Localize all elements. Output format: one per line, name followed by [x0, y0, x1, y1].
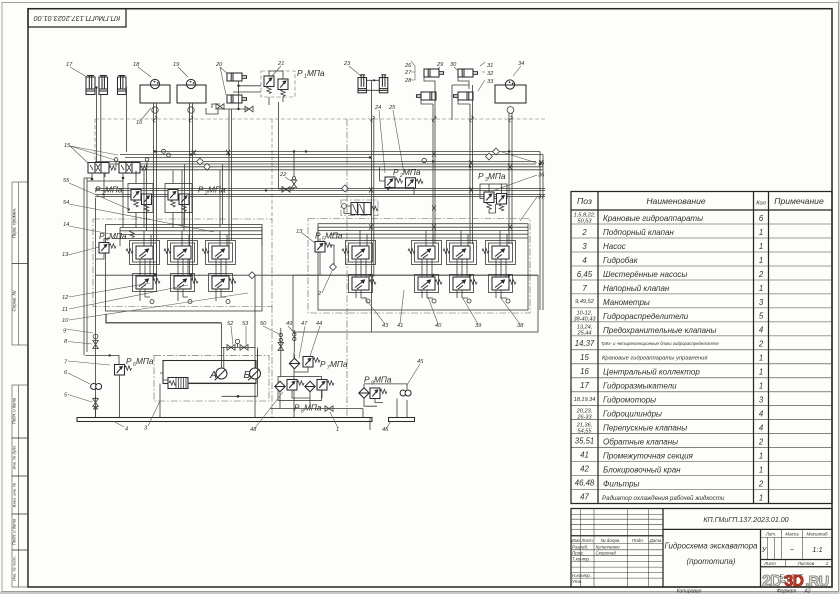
svg-text:Крановые гидроаппараты управле: Крановые гидроаппараты управления	[602, 356, 707, 362]
leaders 29 30	[432, 67, 462, 74]
bus y169	[120, 169, 543, 171]
wire frames around valve columns	[130, 241, 160, 265]
dots under 15	[91, 177, 125, 181]
spring 46r	[380, 389, 387, 393]
svg-text:11: 11	[62, 307, 68, 313]
svg-text:Гидрораспределители: Гидрораспределители	[603, 312, 689, 321]
svg-text:3: 3	[582, 242, 587, 251]
svg-text:Шестерённые насосы: Шестерённые насосы	[603, 270, 687, 279]
svg-text:26-33: 26-33	[576, 414, 592, 420]
valve 22	[291, 180, 297, 188]
leaders 50 49 47 44	[263, 326, 320, 358]
right group inner box	[318, 224, 528, 310]
valve 53	[240, 345, 248, 351]
svg-text:2: 2	[758, 270, 764, 279]
svg-text:30: 30	[450, 62, 457, 68]
svg-text:4: 4	[759, 326, 764, 335]
svg-text:50,53: 50,53	[578, 219, 593, 225]
x-connectors on vertical pairs	[192, 150, 196, 155]
leaders 12 11 10	[69, 283, 248, 320]
svg-text:МПа: МПа	[304, 403, 322, 413]
filter 47	[289, 358, 299, 368]
drain collector left group	[106, 314, 221, 323]
svg-text:Кулинченко: Кулинченко	[596, 545, 621, 550]
valve 20a	[216, 104, 224, 110]
title block outer	[571, 509, 832, 588]
svg-text:МПа: МПа	[105, 185, 123, 195]
svg-text:Р: Р	[393, 167, 399, 177]
svg-text:МПа: МПа	[109, 231, 127, 241]
spring R2l	[435, 280, 442, 284]
svg-text:36: 36	[538, 173, 545, 179]
stems R2	[422, 259, 433, 298]
svg-text:Инв. № дубл.: Инв. № дубл.	[11, 445, 16, 470]
cylinder 20 lower	[227, 95, 247, 103]
P8 cluster frame	[278, 377, 322, 401]
svg-text:4: 4	[759, 424, 764, 433]
valve column R1 lower	[352, 277, 369, 290]
pin 15a	[115, 162, 117, 168]
box Inv no podl	[12, 550, 28, 587]
leaders 43 41 40 39 38	[364, 290, 520, 324]
wires 42	[344, 206, 352, 214]
svg-text:Р: Р	[95, 185, 101, 195]
wires 24 25	[380, 167, 414, 195]
svg-text:50: 50	[260, 321, 267, 327]
wires 34 down	[509, 113, 512, 244]
filter 48c	[305, 381, 315, 391]
leader 17	[70, 67, 87, 77]
leader 16	[141, 108, 151, 120]
svg-text:53: 53	[242, 321, 249, 327]
collector box	[293, 275, 538, 332]
leaders 15	[70, 146, 118, 163]
valve 42	[351, 203, 371, 215]
wires from 15 down	[92, 173, 136, 228]
spring R3u	[443, 249, 450, 253]
check node 2	[330, 264, 337, 271]
svg-text:2: 2	[758, 479, 764, 488]
valve 36a	[484, 192, 494, 203]
check valve 35a	[486, 153, 493, 160]
svg-text:18: 18	[133, 62, 140, 68]
svg-text:Поз: Поз	[577, 196, 592, 206]
spring 44	[313, 358, 320, 362]
leader 48	[255, 392, 283, 428]
leader 7	[68, 361, 110, 365]
table body: names	[603, 214, 716, 489]
svg-text:14: 14	[63, 222, 69, 228]
svg-text:25: 25	[388, 105, 396, 111]
watermark 2D-3D.RU	[762, 573, 829, 590]
group 14 dashdot box	[93, 219, 272, 307]
svg-text:43: 43	[382, 323, 389, 329]
svg-text:54: 54	[63, 200, 69, 206]
wires from 17 down	[97, 87, 127, 172]
svg-text:1: 1	[759, 466, 763, 475]
svg-text:3D: 3D	[785, 573, 804, 590]
spring 21a	[267, 87, 271, 94]
node circle bus	[422, 158, 426, 162]
control valve 15b	[119, 163, 140, 174]
valve column L1 lower	[136, 276, 153, 289]
pilot dashed line	[95, 119, 545, 161]
spring 55a	[134, 200, 138, 207]
svg-text:Р: Р	[478, 171, 484, 181]
item 49 chain	[293, 330, 295, 418]
svg-text:Р: Р	[320, 359, 326, 369]
pilot bus lines left group	[112, 228, 262, 239]
dot 17	[95, 86, 97, 88]
left margin column boxes	[11, 182, 28, 587]
block 54 box	[165, 184, 192, 213]
box Sprav no	[12, 264, 28, 346]
leader 21	[272, 66, 281, 76]
left side drop wires	[84, 178, 123, 355]
pipe dots 20	[237, 85, 239, 111]
pipes 20	[218, 81, 261, 246]
svg-text:Насос: Насос	[603, 242, 626, 251]
block 55 box	[128, 184, 153, 213]
gauge A	[215, 368, 227, 380]
svg-text:46: 46	[382, 427, 389, 433]
svg-text:Р: Р	[364, 375, 370, 385]
spring 13L top	[130, 231, 134, 238]
relief 44	[303, 357, 313, 368]
drain circle L2	[188, 300, 192, 304]
pipes 29	[421, 77, 435, 120]
pilot bus stubs right	[318, 227, 507, 246]
yoke 23	[367, 80, 380, 90]
wires 29 down	[433, 120, 435, 244]
svg-text:52: 52	[227, 321, 234, 327]
svg-text:Б: Б	[244, 370, 251, 381]
svg-text:Кол: Кол	[756, 201, 766, 207]
svg-text:4: 4	[759, 410, 764, 419]
svg-text:Фильтры: Фильтры	[603, 480, 640, 489]
spring 15b	[140, 166, 147, 170]
hydromotor 19	[186, 79, 195, 88]
table body: qty	[758, 214, 764, 502]
designation cell	[663, 528, 832, 530]
svg-text:7: 7	[582, 284, 587, 293]
svg-text:Гидроразмыкатели: Гидроразмыкатели	[603, 382, 677, 391]
spring 36b	[499, 204, 503, 211]
relief 48b	[287, 380, 297, 391]
dot below	[237, 395, 240, 398]
yoke dot 23	[373, 79, 375, 81]
leader 20	[220, 67, 229, 95]
valve 55b	[142, 194, 152, 205]
stems L1	[140, 259, 150, 301]
svg-text:6: 6	[759, 214, 764, 223]
relief 48d	[317, 380, 327, 391]
valve column L1 upper	[136, 246, 153, 259]
svg-text:16: 16	[580, 367, 589, 376]
box Perv primen	[12, 182, 28, 264]
spring 25	[416, 179, 423, 183]
svg-text:Лит.: Лит.	[765, 531, 777, 536]
svg-text:1: 1	[826, 561, 829, 567]
valve 21a	[264, 76, 274, 87]
gauge B	[248, 368, 260, 380]
svg-text:Перепускные клапаны: Перепускные клапаны	[603, 424, 687, 433]
bus y188	[95, 187, 545, 189]
svg-text:Радиатор охлаждения рабочей жи: Радиатор охлаждения рабочей жидкости	[602, 495, 725, 502]
wires pumps 18 19 down	[154, 103, 193, 280]
spring 24	[396, 178, 403, 182]
wires 23 down	[372, 119, 374, 332]
block 36 box	[480, 184, 507, 199]
svg-text:МПа: МПа	[208, 185, 226, 195]
dot 24	[388, 186, 390, 188]
spring 55b	[144, 205, 148, 212]
dot 7	[109, 354, 111, 356]
motor 18 housing	[140, 85, 170, 103]
svg-text:Скоронад: Скоронад	[596, 550, 617, 555]
svg-text:1: 1	[759, 452, 763, 461]
spring R4l	[509, 280, 516, 284]
drain circle R3	[467, 299, 471, 303]
TITLE BLOCK	[571, 509, 832, 594]
svg-text:Блокировочный кран: Блокировочный кран	[603, 466, 681, 475]
svg-text:49: 49	[286, 321, 293, 327]
item 8 gauge circle	[93, 334, 98, 339]
wires 31 down	[470, 120, 473, 244]
drain valve 21	[282, 187, 290, 193]
spring 48b	[297, 381, 304, 385]
column feed wires from buses	[144, 165, 223, 228]
rail node	[249, 272, 256, 279]
leader 13 left	[68, 247, 99, 255]
circle 22	[292, 177, 295, 180]
valve column R1 upper	[352, 246, 369, 259]
spring L1l	[153, 279, 160, 283]
leader 23	[349, 66, 361, 76]
wires 21	[269, 71, 294, 189]
valve 21b	[278, 79, 288, 90]
relief valve 25	[406, 178, 416, 189]
brake cylinders 17	[86, 75, 126, 94]
stem circle 19	[188, 107, 194, 113]
relief valve 13 right	[315, 242, 325, 253]
motor 34 housing	[495, 85, 526, 103]
gauge circle 42	[342, 204, 347, 209]
svg-text:3: 3	[759, 396, 764, 405]
leader 14	[69, 226, 110, 234]
box Podp i data 2	[12, 514, 28, 550]
relief valve 13 left	[99, 243, 109, 254]
svg-text:МПа: МПа	[325, 231, 343, 241]
svg-text:17: 17	[66, 62, 73, 68]
svg-text:Изм: Изм	[571, 538, 579, 543]
svg-text:Справ. №: Справ. №	[11, 291, 16, 312]
svg-text:Обратные клапаны: Обратные клапаны	[603, 438, 678, 447]
cylinder 23 right	[379, 75, 388, 93]
bus y151	[154, 151, 541, 153]
svg-text:Центральный коллектор: Центральный коллектор	[603, 368, 700, 377]
zig spring 3	[169, 381, 176, 385]
block 42 dashed box	[341, 200, 378, 216]
cylinder 31 upper	[458, 69, 478, 77]
wires 7	[85, 355, 119, 417]
stem 52/53	[237, 344, 239, 348]
svg-text:2: 2	[581, 228, 587, 237]
right edge wires	[540, 152, 543, 311]
leaders 24 25	[379, 110, 404, 173]
dashed edge of group box up	[271, 119, 273, 219]
svg-text:№ докум.: № докум.	[601, 538, 621, 543]
gear pump 6	[91, 384, 102, 390]
stems L3	[216, 259, 226, 301]
spring 48d	[327, 381, 334, 385]
svg-text:Лист: Лист	[580, 538, 593, 543]
svg-text:23: 23	[343, 61, 351, 67]
valve 36b	[497, 194, 507, 205]
svg-text:14,37: 14,37	[575, 339, 595, 348]
svg-text:28: 28	[404, 78, 412, 84]
tank bar right	[389, 418, 415, 422]
dashdot box A/B	[154, 355, 269, 401]
stems L2	[178, 259, 188, 301]
svg-text:Гидромоторы: Гидромоторы	[603, 396, 656, 405]
leader 37	[520, 197, 537, 221]
motor 19 housing	[177, 85, 206, 103]
svg-text:3: 3	[759, 298, 764, 307]
svg-text:Взам. инв. №: Взам. инв. №	[11, 482, 16, 507]
svg-text:КП.ГМиГП.137.2023.01.00: КП.ГМиГП.137.2023.01.00	[703, 516, 788, 524]
svg-text:20: 20	[215, 62, 223, 68]
rail dots	[154, 274, 511, 277]
left group inner box	[106, 225, 263, 312]
relief valve 7	[115, 365, 125, 376]
svg-text:32: 32	[487, 71, 494, 77]
leader 13 right	[302, 233, 315, 243]
svg-text:19: 19	[173, 62, 180, 68]
leader 2	[322, 271, 332, 293]
valve 55a	[131, 190, 141, 201]
leader 34	[513, 66, 521, 76]
svg-text:48: 48	[250, 427, 257, 433]
wires 13 right	[320, 239, 334, 276]
bus y166	[120, 166, 543, 168]
leader 36	[495, 175, 537, 190]
svg-text:1: 1	[759, 242, 763, 251]
spring 21b	[281, 90, 285, 97]
valve 20b	[245, 106, 253, 112]
valve column R2 lower	[418, 277, 435, 290]
valve 52	[227, 345, 235, 351]
line through box	[188, 382, 256, 384]
relief 46r	[370, 388, 380, 399]
svg-text:39: 39	[475, 323, 482, 329]
PARTS TABLE	[571, 192, 832, 504]
pipes 31	[452, 77, 473, 120]
svg-text:45: 45	[417, 359, 424, 365]
svg-text:35: 35	[538, 161, 545, 167]
filter 48a	[275, 381, 285, 391]
svg-text:4: 4	[125, 427, 128, 433]
svg-text:46,48: 46,48	[575, 479, 595, 488]
leader 19	[178, 67, 188, 77]
left part vertical lines	[581, 509, 649, 588]
wires from blocks 55 54 down	[136, 171, 184, 231]
svg-text:Р: Р	[294, 403, 300, 413]
svg-text:6,45: 6,45	[577, 270, 593, 279]
drain circle L3	[226, 300, 230, 304]
left part horizontal lines	[571, 514, 663, 578]
svg-text:1: 1	[759, 228, 763, 237]
spring 15a	[109, 166, 116, 170]
valve column R4 upper	[492, 246, 509, 259]
svg-text:КП.ГМиГП.137.2023.01.00: КП.ГМиГП.137.2023.01.00	[34, 14, 120, 23]
leader 8	[68, 342, 92, 345]
wires 45	[364, 384, 407, 417]
valve column L3 lower	[212, 276, 229, 289]
spring R4u	[482, 249, 489, 253]
svg-text:44: 44	[316, 321, 322, 327]
table grid	[571, 192, 832, 504]
wires 13 left	[95, 239, 110, 260]
drain circle R1	[366, 299, 370, 303]
spring 54a	[171, 200, 175, 207]
svg-text:(прототипа): (прототипа)	[687, 557, 736, 566]
control valve 15a	[88, 163, 109, 174]
cylinder 29 upper	[424, 69, 444, 77]
pilot bus stubs	[120, 228, 262, 246]
svg-text:16: 16	[136, 120, 143, 126]
spring R1l	[369, 280, 376, 284]
spring R3l	[470, 280, 477, 284]
svg-text:Н.контр.: Н.контр.	[572, 573, 591, 578]
box Inv no dubl	[12, 438, 28, 476]
svg-text:26: 26	[404, 63, 412, 69]
check valve 35b	[493, 148, 500, 155]
hydromotor 34	[505, 80, 514, 89]
drain line y408	[270, 390, 363, 409]
svg-text:1: 1	[336, 427, 339, 433]
svg-text:Подп. и дата: Подп. и дата	[11, 518, 16, 545]
leader 18	[138, 67, 151, 77]
leader 9	[66, 329, 93, 333]
svg-text:37: 37	[538, 195, 545, 201]
spring 13 right	[325, 243, 332, 247]
svg-text:Разраб.: Разраб.	[572, 545, 588, 550]
cylinder 23 left	[358, 75, 367, 93]
sheet edge shading	[0, 592, 840, 594]
heater/pump 3 hatched	[163, 378, 188, 389]
box Vzam inv no	[12, 476, 28, 514]
leader 22	[285, 177, 291, 181]
svg-text:Напорный клапан: Напорный клапан	[603, 284, 670, 293]
svg-text:2: 2	[758, 340, 764, 349]
valve column R3 upper	[453, 246, 470, 259]
valve on drain	[325, 406, 333, 412]
svg-text:Подп.: Подп.	[632, 538, 644, 543]
svg-text:42: 42	[580, 465, 589, 474]
drain circle R2	[432, 299, 436, 303]
pin 15b	[146, 162, 148, 168]
svg-text:27: 27	[404, 70, 412, 76]
svg-text:Р: Р	[297, 68, 303, 78]
group 37 dashdot box	[308, 219, 530, 314]
svg-text:Масса: Масса	[785, 531, 799, 536]
stems R4	[496, 259, 507, 298]
spring 42	[371, 206, 378, 210]
cylinder 31 lower	[454, 92, 474, 100]
svg-text:–: –	[789, 546, 794, 553]
leader 35	[502, 152, 537, 163]
